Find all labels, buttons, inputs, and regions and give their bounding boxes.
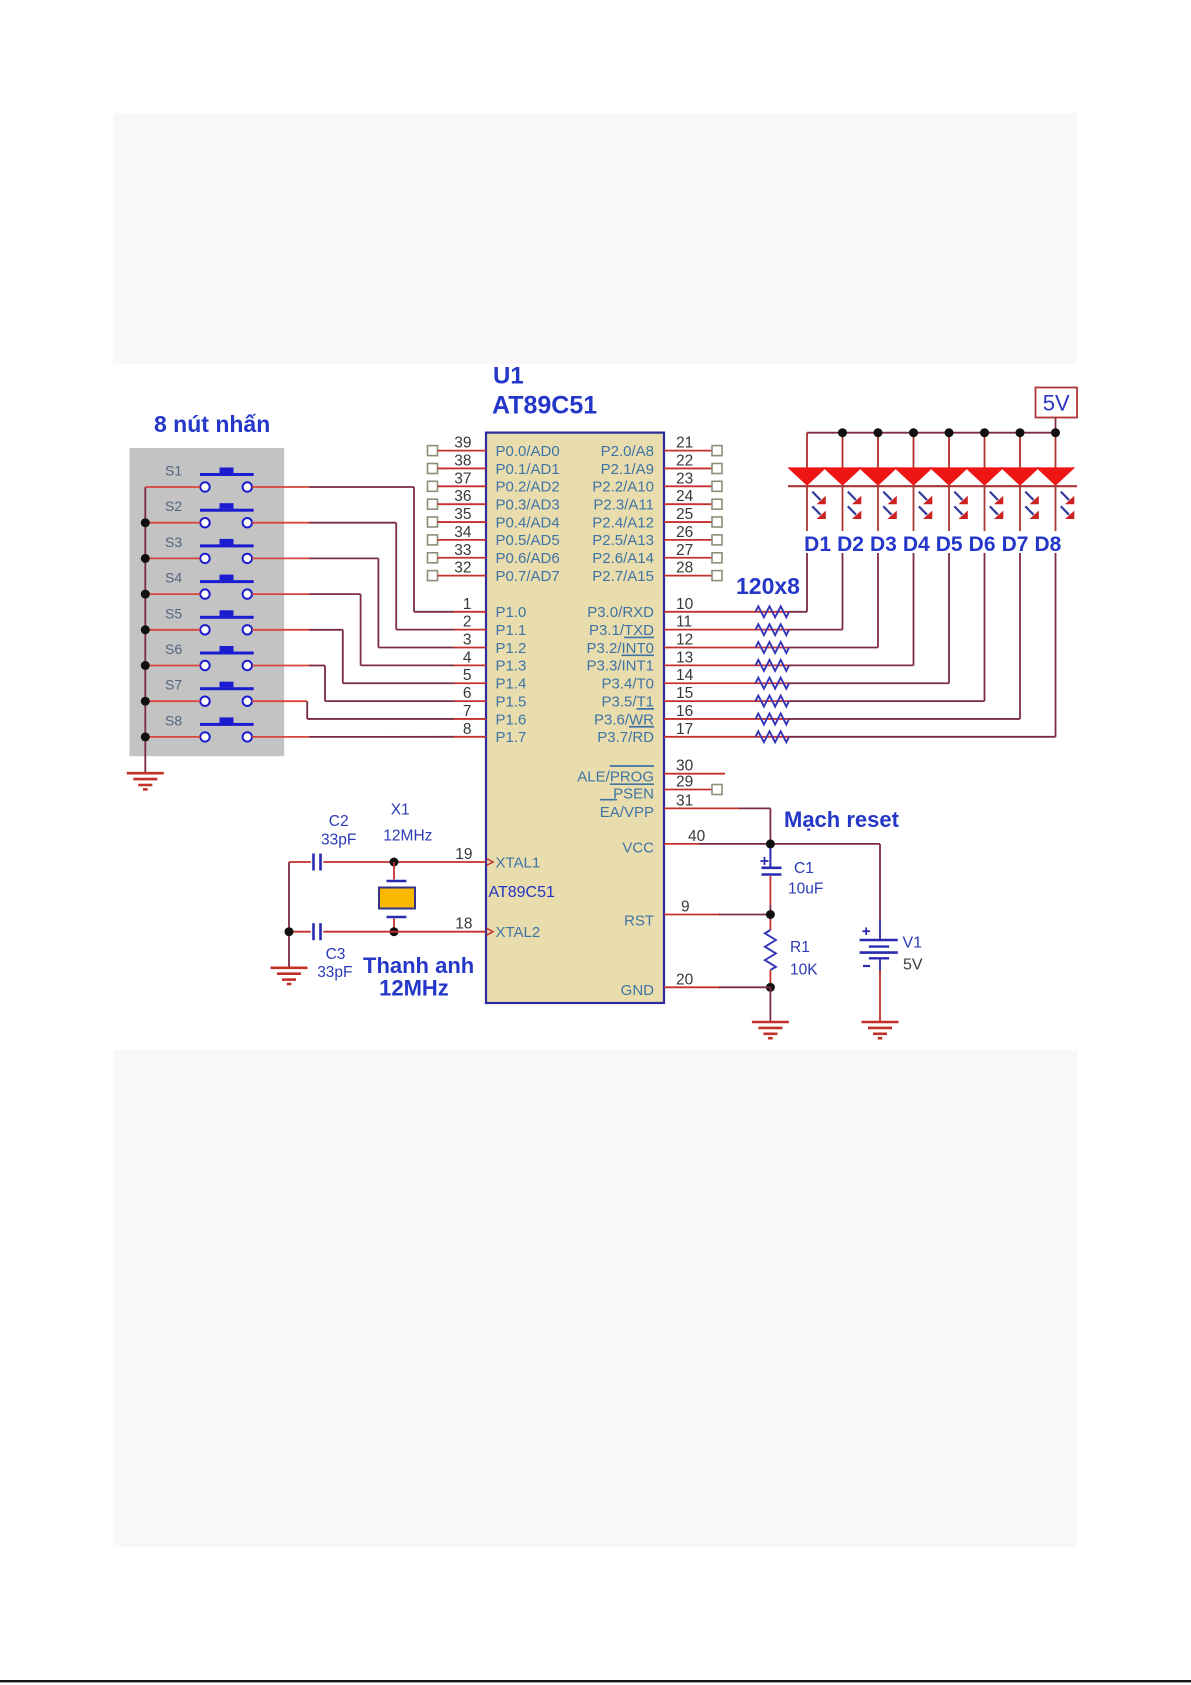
wire battery to ground xyxy=(879,958,881,1021)
junction node rail/D6 xyxy=(980,428,989,437)
junction node bus/S8 xyxy=(141,732,150,741)
svg-text:5: 5 xyxy=(463,667,472,684)
svg-text:3: 3 xyxy=(463,632,472,649)
svg-text:Thanh anh: Thanh anh xyxy=(363,953,474,978)
svg-text:P0.5/AD5: P0.5/AD5 xyxy=(496,532,560,549)
wire left bus to C3 xyxy=(289,931,311,933)
svg-text:12MHz: 12MHz xyxy=(379,976,449,1001)
svg-text:30: 30 xyxy=(676,758,694,775)
resistor 120x8 element 5 xyxy=(756,678,790,689)
svg-text:9: 9 xyxy=(681,899,690,916)
svg-text:P3.6/WR: P3.6/WR xyxy=(594,711,654,728)
ground (button bus) xyxy=(127,773,164,789)
wire bus to S7 xyxy=(145,700,200,702)
label D1 xyxy=(804,533,831,556)
svg-text:P0.7/AD7: P0.7/AD7 xyxy=(496,568,560,585)
pin 32 P0.7/AD7 xyxy=(428,560,560,585)
svg-text:27: 27 xyxy=(676,542,693,559)
wire resistor 11 to LED D2 column xyxy=(789,553,843,630)
svg-text:26: 26 xyxy=(676,524,693,541)
wire bus to S6 xyxy=(145,665,200,667)
wire S3 to P1.2 (pin 3) xyxy=(252,558,455,647)
svg-text:13: 13 xyxy=(676,649,693,666)
crystal X1 xyxy=(379,862,415,932)
pin 19 XTAL1 xyxy=(455,846,540,871)
label D8 xyxy=(1034,533,1061,556)
junction node VCC xyxy=(766,839,775,848)
junction node bus/S7 xyxy=(141,697,150,706)
junction node rail/D3 xyxy=(874,428,883,437)
wire bus to S2 xyxy=(145,522,200,524)
wire EA/VPP to VCC node xyxy=(739,808,770,844)
svg-text:29: 29 xyxy=(676,774,693,791)
push button S8 xyxy=(165,712,254,741)
svg-text:AT89C51: AT89C51 xyxy=(492,392,597,420)
wire GND node to ground xyxy=(769,987,771,1021)
junction node bus/S3 xyxy=(141,554,150,563)
wire bus to S5 xyxy=(145,629,200,631)
pin 20 GND xyxy=(621,971,720,999)
wire S7 to P1.6 (pin 7) xyxy=(252,701,455,719)
svg-text:23: 23 xyxy=(676,470,693,487)
svg-text:33pF: 33pF xyxy=(321,832,356,849)
svg-text:D1: D1 xyxy=(804,533,831,556)
svg-text:11: 11 xyxy=(676,614,692,631)
resistor 120x8 element 2 xyxy=(756,624,790,635)
svg-text:U1: U1 xyxy=(493,363,524,390)
svg-text:P3.1/TXD: P3.1/TXD xyxy=(589,622,654,639)
resistor 120x8 element 4 xyxy=(756,660,790,671)
svg-text:40: 40 xyxy=(688,828,706,845)
pin 18 XTAL2 xyxy=(455,916,540,941)
label Thanh anh 12MHz xyxy=(363,953,474,1001)
wire bus to S8 xyxy=(145,736,200,738)
svg-text:21: 21 xyxy=(676,435,693,452)
resistor 120x8 element 8 xyxy=(756,731,790,742)
pin 1 P1.0 xyxy=(454,596,526,621)
svg-text:31: 31 xyxy=(676,792,693,809)
svg-text:P0.6/AD6: P0.6/AD6 xyxy=(496,550,560,567)
label D4 xyxy=(903,533,930,556)
ground (battery) xyxy=(862,1022,899,1038)
svg-text:P0.4/AD4: P0.4/AD4 xyxy=(496,514,560,531)
svg-text:D4: D4 xyxy=(903,533,930,556)
wire ground bus (left of buttons) xyxy=(144,487,146,773)
svg-text:28: 28 xyxy=(676,560,693,577)
label 120x8 xyxy=(736,573,800,599)
resistor R1 xyxy=(765,915,776,988)
pin 38 P0.1/AD1 xyxy=(428,452,560,477)
LED D5 xyxy=(929,433,968,531)
LED cathode bar xyxy=(788,485,1077,487)
svg-text:P2.7/A15: P2.7/A15 xyxy=(592,568,654,585)
svg-text:36: 36 xyxy=(454,488,471,505)
push button S5 xyxy=(165,605,254,634)
ground (R1) xyxy=(752,1022,789,1038)
svg-text:35: 35 xyxy=(454,506,471,523)
pin 23 P2.2/A10 xyxy=(592,470,722,495)
svg-text:P2.3/A11: P2.3/A11 xyxy=(593,496,654,513)
pin 26 P2.5/A13 xyxy=(592,524,722,549)
wire C2 to XTAL1 xyxy=(323,861,486,863)
pin 16 P3.6/WR xyxy=(594,703,756,728)
resistor 120x8 element 6 xyxy=(756,696,790,707)
wire S1 to P1.0 (pin 1) xyxy=(252,487,455,612)
svg-text:20: 20 xyxy=(676,971,694,988)
junction node rail/D8 xyxy=(1051,428,1060,437)
pin 13 P3.3/INT1 xyxy=(586,649,755,674)
wire resistor 14 to LED D5 column xyxy=(789,553,949,683)
resistor 120x8 element 7 xyxy=(756,714,790,725)
svg-text:X1: X1 xyxy=(391,802,410,819)
wire resistor 16 to LED D7 column xyxy=(789,553,1020,719)
wire S6 to P1.5 (pin 6) xyxy=(252,666,455,702)
LED D7 xyxy=(1000,433,1039,531)
svg-text:D7: D7 xyxy=(1002,533,1029,556)
wire left bus to C2 xyxy=(289,861,311,863)
svg-text:P1.3: P1.3 xyxy=(496,658,527,675)
svg-text:V1: V1 xyxy=(903,935,923,952)
svg-text:24: 24 xyxy=(676,488,694,505)
pin 22 P2.1/A9 xyxy=(601,452,722,477)
svg-text:2: 2 xyxy=(463,614,472,631)
pin 27 P2.6/A14 xyxy=(592,542,722,567)
pin 10 P3.0/RXD xyxy=(587,596,755,621)
svg-text:S6: S6 xyxy=(165,641,182,657)
svg-text:8 nút nhấn: 8 nút nhấn xyxy=(154,411,270,437)
pin 3 P1.2 xyxy=(454,632,526,657)
battery V1 xyxy=(860,928,898,967)
svg-text:D2: D2 xyxy=(837,533,864,556)
wire crystal left bus vertical xyxy=(288,862,290,968)
wire bus to S3 xyxy=(145,557,200,559)
svg-text:5V: 5V xyxy=(903,957,923,974)
junction node bus/S2 xyxy=(141,518,150,527)
svg-text:39: 39 xyxy=(454,435,471,452)
wire S8 to P1.7 (pin 8) xyxy=(252,736,455,738)
wire resistor 12 to LED D3 column xyxy=(789,553,878,648)
wire RST pin to node xyxy=(719,914,770,916)
svg-text:120x8: 120x8 xyxy=(736,573,800,599)
power label 5V box xyxy=(1036,388,1078,418)
junction node XTAL1/crystal xyxy=(390,858,399,867)
pin 36 P0.3/AD3 xyxy=(428,488,560,513)
svg-text:P1.2: P1.2 xyxy=(496,640,527,657)
pin 17 P3.7/RD xyxy=(597,721,755,746)
wire bus to S1 xyxy=(145,486,200,488)
junction node bus/S5 xyxy=(141,625,150,634)
push button S2 xyxy=(165,498,254,527)
svg-text:P1.5: P1.5 xyxy=(496,693,527,710)
label D7 xyxy=(1002,533,1029,556)
wire C3 to XTAL2 xyxy=(323,931,486,933)
svg-text:PSEN: PSEN xyxy=(613,786,654,803)
LED D3 xyxy=(858,433,897,531)
wire GND pin to node xyxy=(719,986,770,988)
svg-text:P2.5/A13: P2.5/A13 xyxy=(592,532,654,549)
svg-text:P3.3/INT1: P3.3/INT1 xyxy=(586,658,654,675)
wire resistor 17 to LED D8 column xyxy=(789,553,1056,737)
pin 7 P1.6 xyxy=(454,703,526,728)
svg-text:AT89C51: AT89C51 xyxy=(489,884,556,901)
junction node left bus/C3 xyxy=(285,927,294,936)
label AT89C51 (title) xyxy=(492,392,597,420)
pin 6 P1.5 xyxy=(454,685,526,710)
ground (crystal) xyxy=(271,968,308,984)
svg-text:P1.0: P1.0 xyxy=(496,604,527,621)
pin 5 P1.4 xyxy=(454,667,526,692)
svg-text:XTAL2: XTAL2 xyxy=(496,924,541,941)
svg-text:18: 18 xyxy=(455,916,472,933)
svg-text:P2.6/A14: P2.6/A14 xyxy=(592,550,654,567)
svg-text:P3.0/RXD: P3.0/RXD xyxy=(587,604,654,621)
capacitor C3 xyxy=(314,923,321,940)
svg-text:S4: S4 xyxy=(165,570,182,586)
svg-text:12MHz: 12MHz xyxy=(383,828,432,845)
label AT89C51 (inside chip) xyxy=(489,884,556,901)
svg-text:EA/VPP: EA/VPP xyxy=(600,804,654,821)
svg-text:17: 17 xyxy=(676,721,693,738)
svg-text:37: 37 xyxy=(454,470,471,487)
pin 29 PSEN xyxy=(600,774,722,803)
svg-text:8: 8 xyxy=(463,721,472,738)
svg-text:RST: RST xyxy=(624,913,654,930)
pin 31 EA/VPP xyxy=(600,792,740,821)
junction node bus/S6 xyxy=(141,661,150,670)
junction node GND xyxy=(766,983,775,992)
svg-text:D8: D8 xyxy=(1034,533,1061,556)
resistor 120x8 element 1 xyxy=(756,606,790,617)
LED D2 xyxy=(823,433,862,531)
capacitor C1 xyxy=(761,844,782,875)
svg-text:S3: S3 xyxy=(165,534,182,550)
svg-text:12: 12 xyxy=(676,632,693,649)
wire bus to S4 xyxy=(145,593,200,595)
pin 25 P2.4/A12 xyxy=(592,506,722,531)
svg-text:P0.3/AD3: P0.3/AD3 xyxy=(496,496,560,513)
pin 34 P0.5/AD5 xyxy=(428,524,560,549)
wire resistor 10 to LED D1 column xyxy=(789,553,807,612)
pin 39 P0.0/AD0 xyxy=(428,435,560,460)
svg-text:S5: S5 xyxy=(165,605,182,621)
pin 4 P1.3 xyxy=(454,649,526,674)
svg-text:25: 25 xyxy=(676,506,693,523)
wire 5V box to rail xyxy=(1055,418,1057,433)
wire resistor 13 to LED D4 column xyxy=(789,553,914,665)
svg-text:10K: 10K xyxy=(790,962,818,979)
svg-text:S1: S1 xyxy=(165,463,182,479)
pin 33 P0.6/AD6 xyxy=(428,542,560,567)
svg-text:P3.5/T1: P3.5/T1 xyxy=(601,693,654,710)
svg-text:P0.0/AD0: P0.0/AD0 xyxy=(496,443,560,460)
svg-text:10: 10 xyxy=(676,596,694,613)
junction node RST xyxy=(766,910,775,919)
pin 21 P2.0/A8 xyxy=(601,435,722,460)
LED D8 xyxy=(1036,433,1075,531)
button panel background xyxy=(129,448,284,756)
svg-text:19: 19 xyxy=(455,846,472,863)
wire VCC node to battery xyxy=(770,844,880,940)
label X1 12MHz xyxy=(383,802,432,845)
LED D6 xyxy=(965,433,1004,531)
pin 40 VCC xyxy=(622,828,705,857)
svg-text:33: 33 xyxy=(454,542,471,559)
resistor 120x8 element 3 xyxy=(756,642,790,653)
pin 11 P3.1/TXD xyxy=(589,614,756,639)
svg-text:Mạch reset: Mạch reset xyxy=(784,807,900,832)
wire VCC pin to node xyxy=(699,843,770,845)
push button S3 xyxy=(165,534,254,563)
label D6 xyxy=(969,533,996,556)
svg-text:P2.2/A10: P2.2/A10 xyxy=(592,479,654,496)
junction node rail/D2 xyxy=(838,428,847,437)
pin 28 P2.7/A15 xyxy=(592,560,722,585)
junction node rail/D5 xyxy=(945,428,954,437)
label C1 10uF xyxy=(788,860,823,898)
svg-text:C2: C2 xyxy=(329,813,349,830)
push button S1 xyxy=(165,463,254,492)
label V1 5V xyxy=(903,935,923,974)
wire C1 to RST node xyxy=(769,876,771,915)
svg-text:VCC: VCC xyxy=(622,840,654,857)
svg-text:P1.7: P1.7 xyxy=(496,729,527,746)
label C3 xyxy=(317,946,352,981)
LED D4 xyxy=(894,433,933,531)
svg-text:7: 7 xyxy=(463,703,472,720)
svg-text:P0.2/AD2: P0.2/AD2 xyxy=(496,479,560,496)
wire S2 to P1.1 (pin 2) xyxy=(252,523,455,630)
label U1 xyxy=(493,363,524,390)
push button S6 xyxy=(165,641,254,670)
svg-text:ALE/PROG: ALE/PROG xyxy=(577,769,654,786)
pin 9 RST xyxy=(624,899,720,930)
svg-text:P1.4: P1.4 xyxy=(496,676,527,693)
svg-text:D3: D3 xyxy=(870,533,897,556)
wire resistor 15 to LED D6 column xyxy=(789,553,985,701)
svg-text:S8: S8 xyxy=(165,712,182,728)
label R1 10K xyxy=(790,939,818,979)
label Mach reset xyxy=(784,807,900,832)
wire S4 to P1.3 (pin 4) xyxy=(252,594,455,665)
pin 2 P1.1 xyxy=(454,614,526,639)
label D5 xyxy=(936,533,963,556)
svg-text:32: 32 xyxy=(454,560,471,577)
svg-text:38: 38 xyxy=(454,452,471,469)
svg-text:10uF: 10uF xyxy=(788,881,823,898)
junction node XTAL2/crystal xyxy=(390,927,399,936)
push button S4 xyxy=(165,570,254,599)
svg-text:S2: S2 xyxy=(165,498,182,514)
svg-text:15: 15 xyxy=(676,685,693,702)
svg-text:D6: D6 xyxy=(969,533,996,556)
svg-text:XTAL1: XTAL1 xyxy=(496,854,541,871)
LED D1 xyxy=(787,433,826,531)
svg-text:S7: S7 xyxy=(165,677,182,693)
wire S5 to P1.4 (pin 5) xyxy=(252,630,455,683)
svg-text:P3.4/T0: P3.4/T0 xyxy=(601,676,654,693)
label: 8 nut nhan xyxy=(154,411,270,437)
junction node rail/D7 xyxy=(1016,428,1025,437)
label C2 xyxy=(321,813,356,849)
pin 14 P3.4/T0 xyxy=(601,667,755,692)
svg-text:P2.0/A8: P2.0/A8 xyxy=(601,443,654,460)
svg-text:1: 1 xyxy=(463,596,472,613)
svg-text:GND: GND xyxy=(621,982,655,999)
svg-text:22: 22 xyxy=(676,452,693,469)
pin 8 P1.7 xyxy=(454,721,526,746)
svg-text:4: 4 xyxy=(463,649,472,666)
svg-text:P1.6: P1.6 xyxy=(496,711,527,728)
svg-text:R1: R1 xyxy=(790,939,810,956)
svg-text:C1: C1 xyxy=(794,860,814,877)
capacitor C2 xyxy=(314,854,321,871)
label D3 xyxy=(870,533,897,556)
op-amp U1 AT89C51 chip body xyxy=(486,433,664,1003)
svg-text:P0.1/AD1: P0.1/AD1 xyxy=(496,461,560,478)
svg-text:P3.2/INT0: P3.2/INT0 xyxy=(586,640,654,657)
svg-text:6: 6 xyxy=(463,685,472,702)
wire 5V rail xyxy=(807,432,1056,434)
pin 12 P3.2/INT0 xyxy=(586,632,755,657)
svg-text:5V: 5V xyxy=(1043,391,1070,416)
push button S7 xyxy=(165,677,254,706)
svg-text:33pF: 33pF xyxy=(317,964,352,981)
label D2 xyxy=(837,533,864,556)
svg-text:P2.1/A9: P2.1/A9 xyxy=(601,461,654,478)
svg-text:P2.4/A12: P2.4/A12 xyxy=(592,514,654,531)
svg-text:16: 16 xyxy=(676,703,693,720)
svg-text:P3.7/RD: P3.7/RD xyxy=(597,729,654,746)
pin 30 ALE/PROG xyxy=(577,758,725,786)
junction node bus/S4 xyxy=(141,590,150,599)
pin 35 P0.4/AD4 xyxy=(428,506,560,531)
junction node rail/D4 xyxy=(909,428,918,437)
svg-text:34: 34 xyxy=(454,524,472,541)
svg-text:C3: C3 xyxy=(326,946,346,963)
pin 15 P3.5/T1 xyxy=(601,685,755,710)
svg-text:P1.1: P1.1 xyxy=(496,622,527,639)
svg-text:14: 14 xyxy=(676,667,694,684)
pin 37 P0.2/AD2 xyxy=(428,470,560,495)
svg-text:D5: D5 xyxy=(936,533,963,556)
pin 24 P2.3/A11 xyxy=(593,488,722,513)
